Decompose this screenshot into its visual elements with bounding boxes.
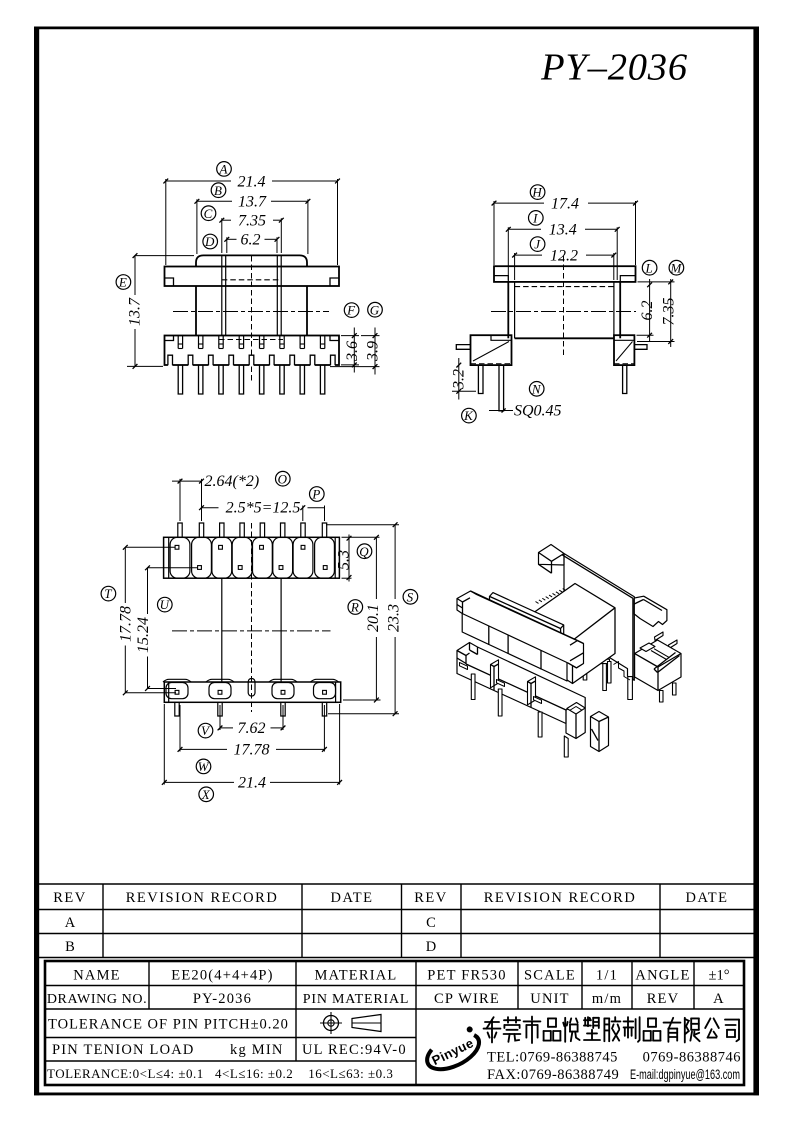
svg-text:20.1: 20.1 — [365, 604, 382, 632]
svg-text:TOLERANCE OF PIN PITCH±0.20: TOLERANCE OF PIN PITCH±0.20 — [48, 1017, 289, 1033]
side view horizontal center line — [491, 311, 636, 313]
svg-text:UL REC:94V-0: UL REC:94V-0 — [302, 1042, 407, 1058]
dim P 2.5x5 pitch — [302, 506, 304, 522]
front view flange right notch — [330, 278, 339, 286]
svg-text:R: R — [350, 600, 359, 615]
svg-text:17.78: 17.78 — [234, 742, 270, 759]
svg-text:m/m: m/m — [592, 991, 622, 1007]
company name chinese — [484, 1017, 739, 1043]
top view flange body outline — [164, 537, 340, 578]
svg-text:EE20(4+4+4P): EE20(4+4+4P) — [171, 967, 273, 983]
svg-text:17.78: 17.78 — [118, 606, 135, 642]
svg-text:UNIT: UNIT — [530, 991, 569, 1007]
front view hidden slot line — [222, 279, 281, 281]
front view vertical center line — [251, 256, 253, 381]
svg-text:L: L — [644, 260, 652, 275]
svg-text:I: I — [532, 211, 538, 226]
front view horizontal center line — [173, 311, 329, 313]
company logo Pinyue swoosh — [421, 1025, 484, 1076]
svg-text:PET FR530: PET FR530 — [427, 967, 506, 983]
svg-text:ANGLE: ANGLE — [635, 967, 690, 983]
svg-text:DRAWING NO.: DRAWING NO. — [47, 992, 147, 1007]
dim F 3.6 base height — [341, 335, 359, 337]
pin pitch symbol crosshair — [324, 1016, 339, 1031]
svg-text:DATE: DATE — [685, 890, 728, 906]
svg-text:D: D — [426, 939, 436, 955]
svg-text:REVISION RECORD: REVISION RECORD — [126, 890, 279, 906]
svg-text:E: E — [118, 275, 127, 290]
isometric view of bobbin — [457, 545, 681, 758]
front view base left notch — [165, 336, 174, 341]
dim X 21.4 bottom — [163, 704, 165, 785]
side view pin below right foot — [623, 365, 627, 393]
side view flange left step — [494, 276, 508, 282]
side view hidden flange underside — [515, 286, 614, 288]
side view pin below left foot — [478, 365, 483, 393]
dim L 6.2 side — [638, 281, 675, 283]
front view winding body — [195, 286, 197, 336]
svg-text:7.35: 7.35 — [661, 298, 678, 326]
svg-text:B: B — [214, 183, 222, 198]
dim V 7.62 — [219, 705, 221, 730]
svg-text:O: O — [278, 471, 288, 486]
svg-text:K: K — [463, 408, 474, 423]
side view top flange edge — [494, 266, 636, 282]
svg-text:C: C — [204, 206, 213, 221]
dim I 13.4 — [507, 227, 509, 280]
top view leader for U — [148, 567, 198, 569]
svg-text:SCALE: SCALE — [524, 967, 576, 983]
top view pin squares upper row — [175, 545, 179, 549]
svg-text:F: F — [346, 303, 356, 318]
top view bottom bar pads — [166, 683, 188, 699]
front view pin slots in base — [177, 336, 179, 349]
revision table — [39, 883, 754, 885]
svg-text:PY–2036: PY–2036 — [540, 47, 688, 89]
svg-text:P: P — [311, 487, 320, 502]
svg-text:PY-2036: PY-2036 — [193, 991, 252, 1007]
svg-text:kg MIN: kg MIN — [230, 1042, 284, 1058]
drawing sheet border frame — [34, 26, 759, 29]
svg-text:2.64(*2): 2.64(*2) — [205, 473, 260, 490]
dim D 6.2 — [226, 237, 228, 253]
top view vertical center line — [251, 523, 253, 712]
svg-text:U: U — [160, 597, 171, 612]
side view left horizontal pin — [456, 345, 470, 350]
svg-text:17.4: 17.4 — [551, 195, 579, 212]
svg-text:MATERIAL: MATERIAL — [315, 967, 398, 983]
svg-text:M: M — [669, 260, 682, 275]
svg-text:13.7: 13.7 — [127, 297, 144, 326]
dim E 13.7 height — [135, 255, 194, 257]
pin pitch symbol taper — [352, 1015, 381, 1032]
title block vertical dividers — [148, 961, 150, 1009]
svg-text:SQ0.45: SQ0.45 — [514, 402, 562, 419]
front view base teeth — [168, 355, 173, 366]
svg-text:21.4: 21.4 — [238, 775, 266, 792]
front view inner wall lines — [221, 255, 223, 335]
svg-text:13.7: 13.7 — [238, 194, 267, 211]
svg-text:T: T — [104, 586, 112, 601]
side view long center pin — [499, 365, 504, 411]
dim A 21.4 top width — [165, 179, 167, 265]
dim W 17.78 bottom — [179, 705, 181, 752]
leader line bottom for T — [125, 692, 176, 694]
side view bottom flange edge — [515, 337, 614, 339]
svg-text:NAME: NAME — [73, 967, 121, 983]
svg-text:6.2: 6.2 — [639, 301, 656, 321]
top view bottom bar — [164, 682, 340, 702]
svg-text:3.6: 3.6 — [344, 341, 361, 362]
top view winding section lobes — [170, 537, 190, 578]
svg-text:C: C — [426, 915, 436, 931]
svg-text:W: W — [198, 759, 210, 774]
svg-text:FAX:0769-86388749: FAX:0769-86388749 — [487, 1067, 619, 1083]
svg-text:13.4: 13.4 — [549, 222, 577, 239]
svg-text:7.35: 7.35 — [238, 213, 266, 230]
svg-text:±1°: ±1° — [708, 967, 729, 983]
svg-text:PIN MATERIAL: PIN MATERIAL — [303, 992, 409, 1007]
front view top flange — [165, 267, 340, 287]
svg-text:0769-86388746: 0769-86388746 — [643, 1050, 741, 1066]
dim U 15.24 — [147, 568, 149, 614]
svg-text:H: H — [531, 185, 542, 200]
dim T 17.78 — [124, 547, 126, 603]
svg-text:E-mail:dgpinyue@163.com: E-mail:dgpinyue@163.com — [630, 1067, 740, 1082]
side view flange right step — [620, 276, 635, 282]
side view right horizontal pin — [634, 345, 647, 350]
top view connection lines to bottom bar — [221, 578, 223, 682]
side view vertical center line — [563, 256, 565, 356]
svg-text:DATE: DATE — [330, 890, 373, 906]
dim M 7.35 side — [637, 341, 675, 343]
svg-text:TEL:0769-86388745: TEL:0769-86388745 — [487, 1050, 618, 1066]
front view top cap — [196, 255, 307, 266]
front view hidden line across slots — [219, 339, 283, 341]
top view horizontal center line — [172, 630, 331, 632]
svg-text:A: A — [65, 915, 76, 931]
svg-text:15.24: 15.24 — [135, 617, 152, 653]
title block outline — [45, 961, 744, 1085]
svg-text:B: B — [65, 939, 75, 955]
svg-text:7.62: 7.62 — [238, 720, 266, 737]
dim O 2.64 end pin pitch — [179, 479, 181, 521]
svg-text:REV: REV — [647, 991, 680, 1007]
svg-text:REV: REV — [414, 890, 448, 906]
leader SQ0.45 pin size — [489, 410, 513, 412]
dim Q 5.3 flange width — [342, 536, 380, 538]
svg-text:PIN TENION LOAD: PIN TENION LOAD — [52, 1042, 195, 1058]
svg-text:G: G — [370, 302, 380, 317]
svg-text:REV: REV — [53, 890, 87, 906]
svg-text:5.3: 5.3 — [335, 550, 352, 570]
svg-text:3.2: 3.2 — [450, 369, 467, 390]
svg-text:D: D — [204, 234, 215, 249]
svg-text:Q: Q — [359, 544, 369, 559]
front view base right notch — [330, 336, 339, 341]
dim G 3.9 standoff height — [330, 366, 380, 368]
side view left foot — [471, 335, 512, 365]
dim B 13.7 cap width — [196, 199, 198, 254]
dim 3.2 pin length — [452, 390, 476, 392]
svg-text:23.3: 23.3 — [385, 604, 402, 632]
dim R 20.1 — [343, 699, 381, 701]
front view flange left notch — [165, 278, 174, 286]
dim C 7.35 — [221, 218, 223, 253]
svg-text:X: X — [201, 787, 211, 802]
top view leader for T — [125, 546, 175, 548]
svg-text:A: A — [713, 991, 725, 1007]
top view pin stubs upper — [178, 523, 182, 537]
svg-text:2.5*5=12.5: 2.5*5=12.5 — [226, 499, 301, 516]
svg-text:N: N — [531, 381, 542, 396]
svg-text:3.9: 3.9 — [365, 341, 382, 362]
front view pin base — [165, 336, 340, 366]
side view tube walls — [507, 282, 509, 338]
dim S 23.3 — [326, 524, 399, 526]
svg-text:A: A — [219, 162, 228, 177]
svg-text:21.4: 21.4 — [238, 173, 266, 190]
side view feet hidden bottoms — [471, 363, 512, 365]
top view bottom bar top edge bumps — [163, 679, 191, 682]
top view pin squares lower row — [198, 566, 202, 570]
svg-text:S: S — [407, 589, 414, 604]
svg-text:REVISION RECORD: REVISION RECORD — [484, 890, 637, 906]
svg-text:12.2: 12.2 — [550, 247, 578, 264]
top view bottom bar center tab — [248, 679, 255, 697]
svg-text:1/1: 1/1 — [596, 967, 618, 983]
top view bottom pin stubs — [175, 702, 179, 716]
front view pins row of 8 — [178, 365, 182, 394]
dim H 17.4 overall depth — [493, 201, 495, 265]
svg-text:TOLERANCE:0<L≤4: ±0.1 4<L≤16: TOLERANCE:0<L≤4: ±0.1 4<L≤16: ±0.2 16<L≤… — [47, 1066, 393, 1081]
svg-text:CP WIRE: CP WIRE — [434, 991, 500, 1007]
dim J 12.2 — [514, 253, 516, 280]
svg-text:6.2: 6.2 — [241, 232, 261, 249]
side view right foot — [614, 335, 634, 365]
